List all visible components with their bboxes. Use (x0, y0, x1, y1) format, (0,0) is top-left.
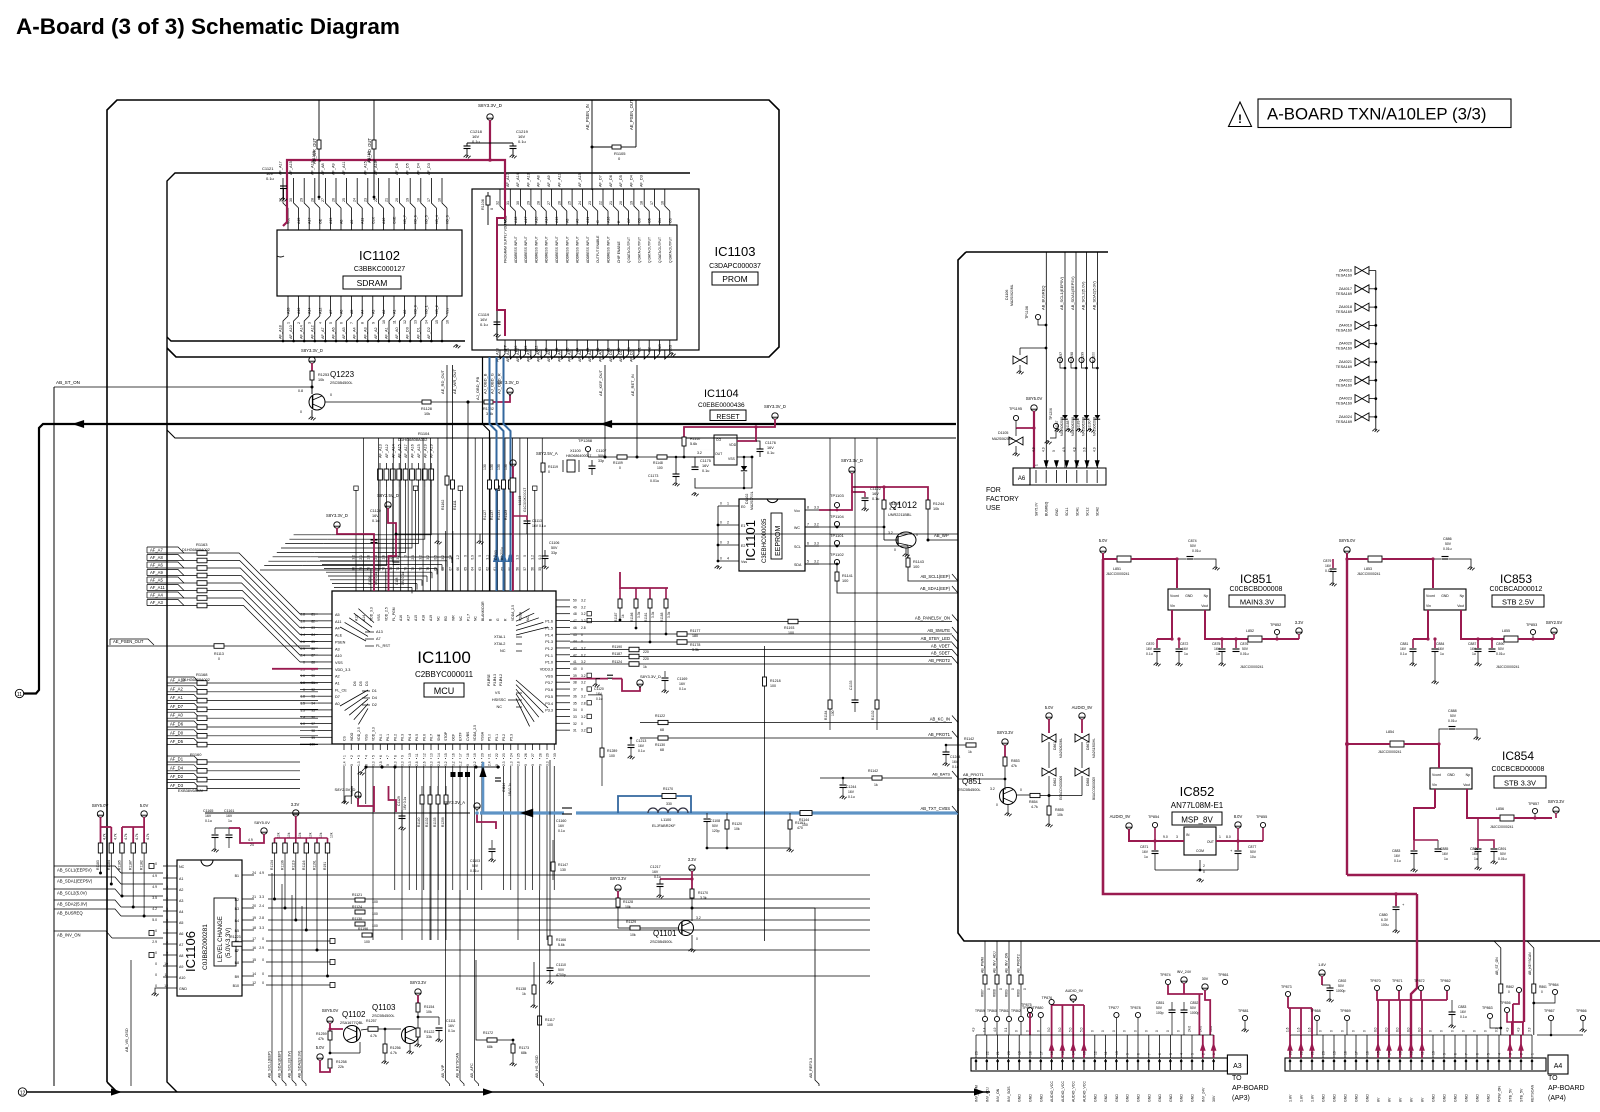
right signal pill labels (570, 615, 958, 665)
svg-text:J6JCC0000241: J6JCC0000241 (1106, 572, 1129, 576)
svg-text:UNR2211BBL: UNR2211BBL (888, 513, 912, 517)
svg-text:3.3: 3.3 (259, 895, 264, 899)
resistor R1258 (328, 1059, 347, 1069)
svg-text:1: 1 (287, 322, 291, 324)
wire Q1103 collector net (418, 1017, 439, 1028)
svg-text:GND: GND (1055, 508, 1059, 516)
svg-text:93: 93 (311, 695, 315, 699)
svg-text:AB_SDA1(EEP5V): AB_SDA1(EEP5V) (57, 879, 93, 884)
svg-text:AJ_OBD_B: AJ_OBD_B (483, 373, 488, 394)
svg-text:AB_KEYSCAN: AB_KEYSCAN (456, 1052, 460, 1078)
wire red IC854 in (1347, 744, 1439, 768)
svg-text:C3EBHC000035: C3EBHC000035 (762, 518, 768, 563)
svg-text:A7: A7 (179, 943, 183, 947)
svg-text:AP-BOARD: AP-BOARD (1548, 1085, 1585, 1092)
svg-text:P1.6: P1.6 (545, 620, 553, 624)
svg-text:TP877: TP877 (1108, 1006, 1119, 1010)
svg-text:AF_A0: AF_A0 (599, 350, 603, 362)
svg-text:1.8V: 1.8V (1318, 963, 1326, 967)
svg-text:0.8: 0.8 (298, 389, 303, 393)
svg-text:21: 21 (996, 1051, 1000, 1055)
svg-text:C883: C883 (1392, 849, 1400, 853)
inductor L853 (1357, 556, 1382, 576)
svg-text:VDD_2.5: VDD_2.5 (384, 607, 388, 621)
warning label box (1258, 99, 1511, 128)
TP881 (1238, 1009, 1249, 1032)
svg-text:I/O_4: I/O_4 (435, 215, 439, 224)
svg-text:18: 18 (252, 926, 256, 930)
svg-text:47k: 47k (318, 1037, 324, 1041)
svg-text:3.3: 3.3 (259, 926, 264, 930)
svg-text:D1HG6808A002: D1HG6808A002 (182, 678, 210, 682)
svg-text:C1120: C1120 (594, 687, 604, 691)
svg-text:PROGRAM SUPPLY VOLTAGE: PROGRAM SUPPLY VOLTAGE (504, 216, 508, 263)
svg-text:AF_A16: AF_A16 (374, 161, 378, 175)
svg-text:0: 0 (1166, 1030, 1170, 1032)
svg-text:TP861: TP861 (999, 1009, 1009, 1013)
resistor R1124b (612, 660, 647, 669)
svg-text:0: 0 (466, 764, 470, 766)
svg-text:23: 23 (588, 201, 592, 205)
svg-text:R1160: R1160 (190, 752, 202, 757)
svg-text:48: 48 (573, 612, 577, 616)
capacitor C1119 (478, 312, 501, 337)
svg-text:P3.0: P3.0 (487, 679, 491, 686)
wire IC852 com (1155, 860, 1238, 882)
svg-text:6.3V: 6.3V (1381, 918, 1389, 922)
wire AJ_OBD_R blue (497, 357, 511, 591)
svg-text:A0: A0 (335, 702, 340, 706)
wire red vcc24 (215, 828, 246, 843)
svg-text:1k: 1k (968, 750, 972, 754)
svg-text:TESA169: TESA169 (1336, 310, 1352, 314)
svg-text:3.3: 3.3 (372, 761, 376, 766)
svg-text:49: 49 (573, 605, 577, 609)
svg-text:92: 92 (311, 688, 315, 692)
svg-text:GND: GND (658, 344, 662, 352)
svg-text:TP881: TP881 (1238, 1009, 1249, 1013)
svg-text:INV_ADJ: INV_ADJ (985, 1087, 989, 1102)
svg-text:1k: 1k (874, 783, 878, 787)
svg-text:R1183: R1183 (96, 860, 100, 870)
svg-text:0: 0 (155, 929, 157, 933)
svg-text:3.6: 3.6 (1083, 447, 1087, 452)
svg-text:0.1u: 0.1u (558, 829, 565, 833)
resistor R1129b (618, 920, 679, 937)
svg-text:2SA1677QBL: 2SA1677QBL (340, 1021, 363, 1025)
svg-text:GND: GND (1443, 1094, 1447, 1102)
resistor R1102 (441, 465, 449, 510)
svg-text:A18: A18 (422, 615, 426, 621)
ground Q851 (996, 803, 1012, 816)
svg-text:C3DAPC000037: C3DAPC000037 (709, 263, 761, 270)
svg-text:4.9: 4.9 (1072, 447, 1076, 452)
wire red Q1102 (329, 1023, 344, 1031)
svg-text:C1244: C1244 (950, 755, 960, 759)
svg-text:16V: 16V (205, 814, 212, 818)
svg-text:14: 14 (1072, 1051, 1076, 1055)
wire red IC1103 vcc (497, 200, 505, 336)
svg-text:A8: A8 (340, 220, 344, 224)
svg-text:P6.7: P6.7 (430, 734, 434, 741)
svg-text:84: 84 (311, 633, 315, 637)
svg-text:STOP: STOP (444, 731, 448, 741)
svg-text:0: 0 (581, 722, 583, 726)
svg-text:4.9: 4.9 (152, 885, 157, 889)
svg-text:30: 30 (289, 198, 293, 202)
label AB_AFC (470, 890, 479, 1086)
svg-text:TP870: TP870 (1370, 979, 1381, 983)
svg-text:8.0: 8.0 (1407, 1027, 1411, 1032)
svg-text:0.9: 0.9 (300, 647, 305, 651)
svg-text:ZA4024: ZA4024 (1339, 415, 1352, 419)
wire blue vertical to MCU (479, 762, 486, 813)
inductor L855 (1496, 629, 1554, 669)
svg-text:0.8: 0.8 (300, 613, 305, 617)
svg-text:S8Y3.3V_D: S8Y3.3V_D (841, 458, 863, 463)
factory vertical wires (1040, 252, 1097, 468)
wire AJ_OBD_PB (475, 357, 490, 591)
capacitor C1160 (556, 808, 572, 833)
svg-text:74: 74 (396, 567, 400, 571)
svg-text:5: 5 (1169, 1053, 1173, 1055)
placeholder col (846, 438, 906, 730)
svg-text:AF_A8: AF_A8 (321, 163, 325, 175)
resistor R1123 (504, 464, 513, 520)
svg-text:R1190: R1190 (612, 645, 622, 649)
svg-text:L1100: L1100 (661, 818, 671, 822)
svg-text:19: 19 (1018, 1051, 1022, 1055)
resistor R1197 (612, 652, 649, 661)
svg-text:15: 15 (444, 753, 448, 757)
svg-text:6: 6 (166, 918, 168, 922)
svg-text:RD: RD (444, 616, 448, 621)
svg-text:1.3: 1.3 (509, 761, 513, 766)
svg-text:5: 5 (1487, 1053, 1491, 1055)
svg-text:A6: A6 (179, 932, 183, 936)
svg-text:57: 57 (523, 567, 527, 571)
svg-text:63: 63 (478, 567, 482, 571)
svg-text:90: 90 (311, 674, 315, 678)
bottom rail arrow 2 (483, 1088, 985, 1095)
svg-text:130: 130 (504, 464, 508, 470)
power S8Y5.0V factory (1026, 396, 1043, 413)
svg-text:33p: 33p (598, 459, 604, 463)
svg-text:AB_SCL1(EEP): AB_SCL1(EEP) (268, 1050, 272, 1078)
svg-text:16V: 16V (952, 760, 959, 764)
label AE_PSEN_OUT line (107, 639, 310, 646)
svg-text:50V: 50V (1190, 1006, 1197, 1010)
svg-text:S8Y5.0V: S8Y5.0V (1035, 502, 1039, 516)
svg-text:AF_A5: AF_A5 (342, 327, 346, 339)
svg-text:SCL: SCL (794, 545, 801, 549)
svg-text:AB_REF3.3: AB_REF3.3 (809, 1058, 813, 1078)
wire thick return bus (24, 424, 956, 694)
svg-text:R1187: R1187 (129, 860, 133, 870)
svg-text:6: 6 (1476, 1053, 1480, 1055)
svg-text:20: 20 (619, 201, 623, 205)
svg-text:16V: 16V (558, 824, 565, 828)
svg-text:A14: A14 (545, 217, 549, 223)
svg-text:100: 100 (364, 940, 370, 944)
svg-text:GND: GND (1180, 1094, 1184, 1102)
svg-text:AB_SCL2(5.0V): AB_SCL2(5.0V) (1081, 281, 1086, 310)
resistor R1111 (451, 480, 458, 510)
svg-text:A17: A17 (308, 218, 312, 224)
svg-text:0.1: 0.1 (1004, 1027, 1008, 1032)
svg-text:GND: GND (179, 987, 187, 991)
svg-text:9: 9 (371, 322, 375, 324)
svg-text:G: G (496, 618, 500, 621)
resistor R1131 (497, 464, 506, 520)
svg-text:I/O_7: I/O_7 (403, 215, 407, 224)
capacitor C1122 (862, 487, 881, 511)
resistor R1289 (600, 748, 617, 758)
svg-text:A1: A1 (179, 877, 183, 881)
svg-text:0: 0 (894, 548, 896, 552)
IC1106 body (177, 860, 242, 996)
svg-text:A7: A7 (329, 310, 333, 314)
A4 red keyscan (1513, 987, 1524, 1035)
svg-text:TP856: TP856 (1500, 1001, 1511, 1005)
svg-text:0: 0 (999, 988, 1003, 990)
IC1100 bottom pin long wires (344, 760, 554, 940)
wire red 3.3V horiz (660, 878, 692, 880)
IC1100 bottom pin stubs (343, 725, 555, 760)
svg-text:0: 0 (581, 688, 583, 692)
wire reset to MCU (584, 457, 586, 470)
svg-text:3.3k: 3.3k (700, 896, 707, 900)
thick bus arrow left (72, 420, 84, 428)
svg-text:0: 0 (1134, 1030, 1138, 1032)
svg-text:Q DATA OUTPUT: Q DATA OUTPUT (648, 237, 652, 263)
svg-text:0.1u: 0.1u (205, 819, 212, 823)
svg-text:0: 0 (478, 555, 482, 557)
svg-text:ADDRESS INPUT: ADDRESS INPUT (576, 236, 580, 263)
svg-text:16V: 16V (652, 870, 659, 874)
svg-text:A1: A1 (335, 682, 340, 686)
svg-text:4.7k: 4.7k (124, 833, 128, 840)
svg-text:3.3k: 3.3k (692, 648, 699, 652)
svg-text:TP880: TP880 (1033, 1006, 1044, 1010)
svg-text:SNE: SNE (437, 733, 441, 741)
svg-text:1.8: 1.8 (300, 695, 305, 699)
svg-text:0: 0 (581, 633, 583, 637)
svg-text:B0ACC0000005: B0ACC0000005 (1092, 777, 1096, 800)
svg-text:3.2: 3.2 (581, 605, 586, 609)
svg-text:3.2: 3.2 (444, 761, 448, 766)
wire red IC1102 VCC drop (283, 222, 287, 226)
svg-text:66: 66 (456, 567, 460, 571)
svg-text:C1217: C1217 (650, 865, 661, 869)
IC1100 top pin long wires (356, 438, 542, 569)
svg-text:R1141: R1141 (842, 574, 853, 578)
svg-text:3.2: 3.2 (581, 660, 586, 664)
svg-text:S8Y5.0V: S8Y5.0V (254, 820, 270, 825)
svg-text:4.9: 4.9 (152, 874, 157, 878)
svg-text:AB_HS_OSD: AB_HS_OSD (535, 1055, 539, 1078)
wire red pullup bridges B (275, 837, 328, 839)
svg-text:33: 33 (573, 715, 577, 719)
svg-text:32: 32 (496, 201, 500, 205)
svg-text:TP866: TP866 (1576, 1009, 1587, 1013)
svg-text:7: 7 (1147, 1053, 1151, 1055)
svg-text:C1107: C1107 (596, 449, 606, 453)
svg-text:C0EBE0000436: C0EBE0000436 (698, 402, 745, 409)
svg-text:3.2: 3.2 (581, 619, 586, 623)
resistor R1106 (481, 192, 505, 225)
svg-text:16: 16 (446, 320, 450, 324)
svg-text:5: 5 (166, 907, 168, 911)
svg-text:10k: 10k (298, 832, 302, 838)
svg-text:A10: A10 (335, 654, 342, 658)
svg-text:5: 5 (372, 755, 376, 757)
resistor pack R1163 rows (147, 542, 228, 608)
svg-text:P1.2: P1.2 (545, 647, 553, 651)
svg-text:50V: 50V (598, 454, 605, 458)
svg-text:19: 19 (406, 198, 410, 202)
svg-text:9: 9 (401, 755, 405, 757)
svg-text:AF_A7: AF_A7 (150, 548, 163, 553)
IC853 body (1424, 589, 1466, 610)
test point TP852 (1270, 623, 1281, 641)
svg-text:OUT: OUT (1207, 840, 1214, 844)
svg-text:0: 0 (1440, 1030, 1444, 1032)
svg-text:NC: NC (459, 616, 463, 621)
wire net y534 (395, 533, 958, 545)
svg-text:GND: GND (1465, 1094, 1469, 1102)
svg-text:4: 4 (1498, 1053, 1502, 1055)
svg-text:0.1u: 0.1u (848, 795, 855, 799)
capacitor C888 (1437, 709, 1480, 746)
svg-text:R1191: R1191 (313, 860, 317, 870)
svg-text:AF_A11: AF_A11 (342, 162, 346, 175)
svg-text:C1110: C1110 (556, 963, 566, 967)
power S8Y3.3V out854 (1548, 799, 1565, 818)
svg-text:P5.0: P5.0 (488, 734, 492, 741)
power S8Y3.3V_D above MCU (326, 513, 348, 530)
svg-text:3.3: 3.3 (546, 761, 550, 766)
svg-text:R1167: R1167 (690, 437, 701, 441)
svg-text:4: 4 (364, 755, 368, 757)
svg-text:B8: B8 (235, 961, 239, 965)
A3 top rail (976, 1034, 1214, 1036)
svg-text:0: 0 (1363, 1030, 1367, 1032)
node 11 (15, 689, 23, 698)
svg-text:L854: L854 (1386, 730, 1394, 734)
svg-text:AB_SDA1(EEP): AB_SDA1(EEP) (278, 1050, 282, 1078)
svg-text:3.2: 3.2 (581, 694, 586, 698)
svg-text:8V: 8V (1421, 1097, 1425, 1102)
svg-text:AF_D4: AF_D4 (416, 163, 420, 175)
svg-text:4.9: 4.9 (1032, 447, 1036, 452)
svg-text:CVBS: CVBS (466, 731, 470, 741)
svg-text:R1154: R1154 (424, 1005, 434, 1009)
IC1100 corner fan top-left (340, 609, 391, 648)
capacitor C1107 (589, 449, 607, 475)
svg-text:0: 0 (1177, 1030, 1181, 1032)
title text (16, 14, 400, 39)
resistor R1119 top (367, 100, 377, 200)
nc squares bottom (451, 772, 471, 777)
label AB_ST_ON (54, 380, 313, 387)
capacitor C871 (1140, 841, 1159, 870)
power 3.3V pullups (291, 802, 300, 838)
svg-text:R1124: R1124 (612, 660, 622, 664)
svg-text:3.3k: 3.3k (667, 611, 671, 618)
svg-text:85: 85 (311, 640, 315, 644)
resistor R1259 (316, 1029, 332, 1054)
wire module boundary left+top (block1) (107, 100, 779, 1092)
svg-text:1u: 1u (1440, 652, 1444, 656)
capacitor C870 (1146, 637, 1174, 666)
svg-text:AUDIO_VCC: AUDIO_VCC (1083, 1081, 1087, 1102)
svg-text:17: 17 (459, 753, 463, 757)
svg-text:56: 56 (530, 567, 534, 571)
svg-text:3.2: 3.2 (697, 451, 702, 455)
svg-text:47k: 47k (1011, 764, 1017, 768)
resistor R1196 (358, 927, 372, 944)
svg-text:10: 10 (382, 320, 386, 324)
power 3.3V out (1295, 620, 1304, 639)
svg-text:3.3V: 3.3V (688, 857, 697, 862)
svg-text:GND: GND (1454, 1094, 1458, 1102)
svg-text:5.0: 5.0 (1058, 1027, 1062, 1032)
svg-text:1: 1 (1035, 464, 1039, 466)
resistor R1148 (653, 455, 667, 470)
svg-text:A4: A4 (361, 310, 365, 314)
svg-text:AF_D6: AF_D6 (609, 175, 613, 187)
svg-text:AF_D1: AF_D1 (416, 327, 420, 339)
svg-text:C118: C118 (395, 577, 399, 585)
svg-text:26: 26 (332, 198, 336, 202)
svg-text:25: 25 (517, 753, 521, 757)
svg-text:0: 0 (350, 764, 354, 766)
svg-text:P5.3: P5.3 (509, 734, 513, 741)
svg-text:A3: A3 (335, 647, 340, 651)
svg-text:46: 46 (573, 626, 577, 630)
wire IC1104 out left (660, 450, 714, 457)
svg-text:3.2: 3.2 (581, 599, 586, 603)
svg-text:A18: A18 (287, 308, 291, 314)
svg-text:24: 24 (509, 753, 513, 757)
svg-text:AF_A1: AF_A1 (588, 350, 592, 362)
svg-text:C887: C887 (1468, 642, 1476, 646)
svg-text:AF_A14: AF_A14 (516, 173, 520, 187)
svg-text:R1172: R1172 (483, 1031, 493, 1035)
wire red IC852 out (1216, 828, 1263, 843)
svg-text:R1256: R1256 (390, 1046, 401, 1050)
svg-text:TESA169: TESA169 (1336, 402, 1352, 406)
svg-text:TESA169: TESA169 (1336, 347, 1352, 351)
svg-text:R1104: R1104 (418, 431, 430, 436)
svg-text:39: 39 (573, 674, 577, 678)
svg-text:0: 0 (523, 555, 527, 557)
resistor R1194 (882, 500, 900, 527)
capacitor C1173 (645, 456, 680, 487)
resistor R1193 (784, 619, 798, 635)
svg-text:GND: GND (1333, 1094, 1337, 1102)
svg-text:STB_5V: STB_5V (1520, 1088, 1524, 1102)
svg-text:3.3: 3.3 (515, 555, 519, 560)
svg-text:A15: A15 (414, 615, 418, 621)
svg-text:44: 44 (573, 640, 577, 644)
svg-text:Q1102: Q1102 (342, 1010, 366, 1019)
svg-text:O7: O7 (627, 218, 631, 223)
svg-text:1: 1 (1212, 1053, 1216, 1055)
svg-text:18: 18 (466, 753, 470, 757)
svg-text:1: 1 (343, 755, 347, 757)
